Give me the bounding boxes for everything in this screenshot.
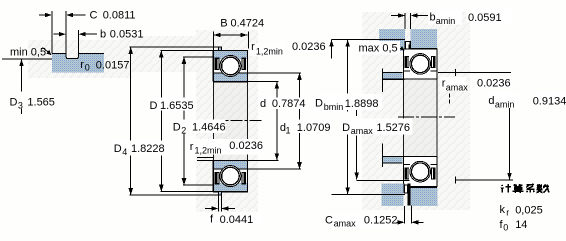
dimension d (248, 81, 278, 83)
dimension B (212, 32, 214, 51)
character ji (501, 184, 511, 192)
snap ring (right view bottom) (407, 184, 410, 206)
max 0,5 leader arrow (394, 45, 401, 49)
svg-text:B: B (220, 17, 227, 29)
r12 chamfer reference stub (331, 40, 333, 59)
svg-text:0.0591: 0.0591 (468, 12, 502, 24)
svg-text:min 0,5: min 0,5 (10, 47, 46, 59)
svg-text:k: k (500, 204, 506, 216)
shaft abutment shoulder bottom (383, 156, 403, 162)
svg-text:C: C (90, 10, 98, 22)
shaft strip between bearing half-sections (214, 82, 247, 161)
svg-text:r: r (190, 141, 194, 153)
dimension f (217, 195, 219, 211)
svg-text:b: b (430, 12, 436, 24)
dimension d1 (248, 72, 301, 74)
snap ring (right view top) (405, 42, 410, 50)
dimension C_amax (404, 206, 406, 224)
outer ring (213, 50, 247, 59)
dimension Damax (356, 110, 358, 116)
svg-text:0.0531: 0.0531 (110, 29, 144, 41)
centerline (226, 120, 263, 122)
housing block top (abutment, snap ring side) (379, 29, 405, 51)
svg-text:1.0709: 1.0709 (297, 122, 331, 134)
svg-text:0.0811: 0.0811 (103, 10, 136, 22)
svg-text:C: C (325, 214, 333, 226)
dimension D (160, 49, 213, 51)
svg-text:0.4724: 0.4724 (231, 17, 265, 29)
dimension D2 (183, 56, 213, 58)
svg-text:1.565: 1.565 (27, 96, 55, 108)
svg-text:d: d (260, 98, 266, 110)
svg-text:d: d (488, 95, 494, 107)
svg-text:0.1252: 0.1252 (364, 215, 398, 227)
svg-text:max 0,5: max 0,5 (359, 42, 398, 54)
bearing cross-section bottom half (mirror) (213, 160, 248, 195)
svg-text:1.6535: 1.6535 (160, 100, 194, 112)
svg-text:1.5276: 1.5276 (376, 122, 410, 134)
dimension C arrows (39, 14, 46, 16)
svg-text:0: 0 (85, 63, 90, 73)
svg-text:0.0236: 0.0236 (477, 77, 511, 89)
svg-text:0.0236: 0.0236 (229, 140, 263, 152)
svg-text:amax: amax (446, 83, 469, 93)
r12 chamfer marks at lower-left chamfer (197, 156, 213, 158)
dimension D4 (130, 46, 219, 48)
svg-text:3: 3 (18, 100, 23, 110)
svg-text:amax: amax (351, 126, 374, 136)
character xi (526, 184, 534, 192)
dimension b_amin (404, 13, 406, 29)
svg-text:r: r (251, 41, 255, 53)
svg-text:0,025: 0,025 (515, 204, 543, 216)
snap ring on outer ring (218, 47, 221, 50)
shield left (215, 58, 220, 71)
shaft abutment shoulder top (383, 73, 403, 79)
right view bearing bottom half (mirror) (403, 157, 437, 187)
centerline right view (398, 116, 455, 118)
svg-text:1.8228: 1.8228 (131, 143, 165, 155)
right view bearing top half (403, 49, 437, 79)
raceways (220, 56, 241, 77)
svg-text:14: 14 (515, 219, 527, 231)
svg-text:amax: amax (334, 219, 357, 229)
svg-text:2: 2 (181, 125, 186, 135)
svg-text:b: b (100, 29, 106, 41)
hatch region around detail block (28, 40, 132, 78)
hatch region right view (362, 12, 470, 210)
svg-text:D: D (315, 98, 323, 110)
strip between right-view bearing halves (404, 79, 437, 157)
svg-text:1,2min: 1,2min (256, 46, 283, 56)
label max 0,5 with white box (358, 41, 401, 55)
white label boxes (112, 10, 566, 228)
character shu (537, 184, 550, 192)
hatch region middle column (120, 36, 216, 72)
svg-text:D: D (10, 96, 18, 108)
svg-text:0.0236: 0.0236 (292, 41, 326, 53)
svg-text:1.8898: 1.8898 (345, 98, 379, 110)
svg-text:0.0441: 0.0441 (220, 214, 254, 226)
min 0,5 leader arrow (43, 48, 50, 54)
shield right (242, 58, 247, 71)
dimension D3 (2, 58, 52, 60)
dimension d_amin (438, 72, 511, 74)
svg-text:4: 4 (122, 147, 127, 157)
housing block bottom right (410, 188, 437, 206)
ball (222, 57, 240, 75)
svg-text:D: D (342, 122, 350, 134)
svg-text:0.0157: 0.0157 (96, 60, 130, 72)
ring outlines (213, 49, 248, 51)
dimension C: extension lines (51, 11, 53, 54)
snap ring groove detail block (outer ring section) (52, 54, 104, 73)
svg-text:0.9134: 0.9134 (533, 95, 566, 107)
label (Chinese) calculation factors (501, 184, 549, 193)
svg-text:1,2min: 1,2min (195, 146, 222, 156)
svg-text:bmin: bmin (324, 102, 344, 112)
bearing cross-section top half (213, 47, 248, 82)
svg-text:r: r (80, 59, 84, 71)
dimension Dbmin (332, 39, 406, 41)
svg-text:D: D (114, 143, 122, 155)
svg-text:amin: amin (495, 100, 515, 110)
character suan (513, 184, 524, 193)
svg-text:1.4646: 1.4646 (192, 122, 226, 134)
svg-text:D: D (150, 100, 158, 112)
svg-text:D: D (173, 122, 181, 134)
inner ring (213, 73, 247, 82)
dimension b arrows (54, 33, 61, 35)
detail block top outline with groove (52, 54, 104, 59)
housing block bottom left (abutment face for snap ring) (382, 184, 404, 206)
svg-text:0.7874: 0.7874 (272, 98, 306, 110)
svg-text:1: 1 (286, 126, 291, 136)
svg-text:0: 0 (503, 223, 508, 233)
svg-text:r: r (506, 208, 509, 218)
svg-text:amin: amin (436, 16, 456, 26)
